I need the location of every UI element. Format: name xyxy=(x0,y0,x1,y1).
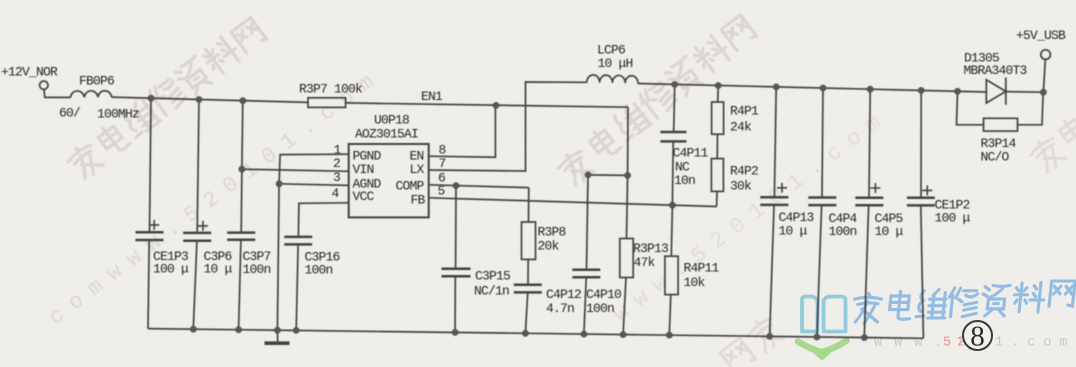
ferrite bead FB0P6 xyxy=(71,91,112,98)
svg-text:+5V_USB: +5V_USB xyxy=(1016,28,1066,43)
wire R3P8 to C4P12 xyxy=(525,259,528,333)
wire EN1 xyxy=(346,103,628,107)
watermark partial chars top-right corner xyxy=(1027,114,1076,176)
wire from +12V terminal to bead xyxy=(44,90,71,98)
junction EN1 / pin8 xyxy=(493,102,500,109)
wire VCC pin4 to C3P16 xyxy=(296,203,349,331)
diagonal watermark stripe A: 家电维修资料网 xyxy=(64,18,266,182)
svg-text:7: 7 xyxy=(439,156,446,171)
wire EN pin8 riser xyxy=(429,105,496,157)
svg-text:47k: 47k xyxy=(634,255,656,270)
svg-text:R4P2: R4P2 xyxy=(730,164,758,179)
wire input rail to R3P7 xyxy=(112,97,308,102)
svg-text:10 μH: 10 μH xyxy=(598,56,633,71)
junction output rail diode anode xyxy=(954,88,961,95)
wire COMP to R3P8 xyxy=(528,188,530,222)
resistor R4P11 body xyxy=(665,256,678,294)
wire VIN pin2 xyxy=(242,169,349,171)
svg-text:C4P10: C4P10 xyxy=(586,287,621,302)
resistor R3P14 body xyxy=(984,118,1018,131)
svg-text:R3P7 100k: R3P7 100k xyxy=(299,82,363,97)
junction bottom rail C3P15 xyxy=(452,329,459,336)
wire PGND pin1 xyxy=(277,154,348,330)
junction +5V node xyxy=(1040,89,1047,96)
svg-text:C4P12: C4P12 xyxy=(546,287,581,302)
capacitor C4P5 plates xyxy=(855,198,883,206)
wire COMP pin6 xyxy=(429,185,529,188)
svg-text:EN1: EN1 xyxy=(421,89,443,104)
wire C3P6 column xyxy=(193,100,199,330)
wire CE1P2 column xyxy=(921,90,924,338)
resistor R3P13 body xyxy=(620,239,633,278)
svg-text:U0P18: U0P18 xyxy=(374,113,409,128)
watermark partial chars bottom-centre xyxy=(720,314,786,367)
resistor R4P2 body xyxy=(711,159,723,192)
wire C4P13 column xyxy=(770,87,777,337)
wire +5V riser xyxy=(1043,60,1045,93)
junction bottom rail C3P6 xyxy=(190,326,197,333)
junction input rail 3 / VIN column xyxy=(239,97,246,104)
resistor R3P8 body xyxy=(522,222,536,259)
svg-text:C3P15: C3P15 xyxy=(475,269,510,284)
svg-text:100n: 100n xyxy=(243,262,271,277)
wire ground stub xyxy=(276,330,278,342)
wire R4P11 branch xyxy=(669,205,672,335)
junction output rail CE1P2 xyxy=(918,87,925,94)
diode D1305 xyxy=(986,78,1006,105)
svg-text:10k: 10k xyxy=(684,275,706,290)
junction bottom rail C4P5 xyxy=(861,334,868,341)
junction bottom rail C4P12 xyxy=(522,330,529,337)
logo book icon xyxy=(802,297,846,332)
svg-text:MBRA340T3: MBRA340T3 xyxy=(964,63,1027,78)
junction C4P10 top xyxy=(585,172,592,179)
capacitor C4P13 plates xyxy=(760,197,788,205)
svg-text:10n: 10n xyxy=(674,173,695,188)
svg-text:VCC: VCC xyxy=(353,189,375,204)
junction output rail C4P11 xyxy=(671,81,678,88)
svg-text:5: 5 xyxy=(438,184,445,199)
svg-text:60/: 60/ xyxy=(59,106,81,121)
wire FB pin5 xyxy=(429,198,717,207)
junction bottom rail PGND xyxy=(274,327,281,334)
resistor R3P7 body xyxy=(308,98,346,108)
svg-text:R4P11: R4P11 xyxy=(684,261,720,276)
ground bar xyxy=(265,341,290,345)
plus sign C3P6 xyxy=(198,221,208,231)
junction input rail 1 xyxy=(148,95,155,102)
capacitor C3P16 plates xyxy=(284,237,312,245)
svg-text:AOZ3015AI: AOZ3015AI xyxy=(355,127,418,142)
svg-text:10 μ: 10 μ xyxy=(875,224,904,239)
svg-text:24k: 24k xyxy=(730,120,752,135)
wire bottom ground rail xyxy=(148,329,923,339)
capacitor C3P6 plates xyxy=(183,233,211,241)
svg-text:+12V_NOR: +12V_NOR xyxy=(1,65,58,80)
terminal +5V_USB xyxy=(1041,50,1051,60)
junction bottom rail C4P4 xyxy=(814,334,821,341)
diagonal watermark stripe B: 家电维修资料网 xyxy=(555,15,756,188)
wire R4P1 top xyxy=(717,86,720,103)
junction soft-start node xyxy=(624,172,631,179)
junction AGND node xyxy=(276,180,283,187)
wire R3P14 loop xyxy=(957,91,1044,125)
svg-text:8: 8 xyxy=(970,321,985,353)
wire R4P1 to R4P2 xyxy=(716,134,718,158)
wire C4P5 column xyxy=(864,89,870,337)
capacitor C4P11 plates xyxy=(660,132,686,141)
junction output rail R4P1 xyxy=(715,82,722,89)
svg-text:1.com: 1.com xyxy=(995,336,1076,351)
capacitor C4P12 plates xyxy=(514,285,542,293)
svg-text:FB0P6: FB0P6 xyxy=(79,74,114,89)
svg-text:100n: 100n xyxy=(305,263,333,278)
svg-text:100n: 100n xyxy=(586,301,614,316)
resistor R4P1 body xyxy=(712,102,724,134)
svg-text:100MHz: 100MHz xyxy=(97,107,139,122)
plus sign C4P13 xyxy=(777,183,787,193)
wire diode cathode to +5V node xyxy=(1006,91,1044,94)
logo green swoosh xyxy=(798,341,847,353)
junction bottom rail C3P16 xyxy=(293,327,300,334)
capacitor CE1P2 plates xyxy=(907,198,935,206)
junction VIN node xyxy=(239,166,246,173)
svg-text:R4P1: R4P1 xyxy=(730,104,759,119)
svg-text:10 μ: 10 μ xyxy=(204,262,233,277)
svg-text:LX: LX xyxy=(410,162,425,177)
plus sign CE1P2 xyxy=(922,185,932,195)
logo circled 8 xyxy=(963,321,992,353)
wire AGND pin3 xyxy=(279,184,349,186)
junction input rail 2 xyxy=(196,96,203,103)
svg-text:2: 2 xyxy=(333,156,340,171)
junction COMP node xyxy=(453,182,460,189)
wire R4P2 to FB line xyxy=(716,191,718,206)
junction bottom rail C4P13 xyxy=(766,333,773,340)
wire C3P7 / VIN column xyxy=(239,101,243,330)
junction output rail C4P13 xyxy=(773,84,780,91)
plus sign CE1P3 xyxy=(149,220,159,230)
svg-text:VIN: VIN xyxy=(353,162,374,177)
wire output rail xyxy=(638,84,986,93)
junction FB node xyxy=(669,202,676,209)
capacitor C3P15 plates xyxy=(442,269,471,276)
svg-text:C4P11: C4P11 xyxy=(673,146,709,161)
svg-text:10 μ: 10 μ xyxy=(779,224,808,239)
svg-text:100 μ: 100 μ xyxy=(153,262,189,277)
junction bottom rail R3P13 xyxy=(620,331,627,338)
wire C3P15 branch xyxy=(454,186,457,333)
logo url www.520(8)01.com xyxy=(874,336,1076,351)
junction bottom rail C3P7 xyxy=(235,326,242,333)
svg-text:4: 4 xyxy=(332,186,340,201)
svg-text:3: 3 xyxy=(333,170,340,185)
svg-text:20k: 20k xyxy=(538,239,560,254)
junction bottom rail C4P10 xyxy=(581,331,588,338)
capacitor C4P4 plates xyxy=(808,198,836,206)
svg-text:4.7n: 4.7n xyxy=(546,301,574,316)
svg-text:R3P8: R3P8 xyxy=(538,225,566,240)
capacitor CE1P3 plates xyxy=(136,232,164,240)
inductor LCP6 xyxy=(587,75,638,84)
svg-text:100n: 100n xyxy=(829,224,857,239)
schematic layer xyxy=(40,50,1051,343)
svg-text:100 μ: 100 μ xyxy=(935,211,971,226)
junction bottom rail R4P11 xyxy=(666,332,673,339)
svg-text:NC/1n: NC/1n xyxy=(474,284,509,299)
svg-text:COMP: COMP xyxy=(396,179,425,194)
svg-text:NC/O: NC/O xyxy=(981,150,1010,165)
junction output rail C4P5 xyxy=(867,86,874,93)
capacitor C3P7 plates xyxy=(227,233,255,240)
svg-text:FB: FB xyxy=(411,193,426,208)
junction output rail C4P4 xyxy=(820,85,827,92)
svg-text:30k: 30k xyxy=(730,179,752,194)
wire C4P11 branch xyxy=(672,84,674,205)
plus sign C4P5 xyxy=(870,183,880,193)
wire CE1P3 column xyxy=(148,98,151,328)
wire C4P4 column xyxy=(817,88,823,337)
capacitor C4P10 plates xyxy=(572,270,600,278)
IC U0P18 box xyxy=(349,144,429,217)
wire EN1 tail riser to soft-start node xyxy=(627,107,629,175)
terminal +12V_NOR xyxy=(40,81,48,89)
wire node to C4P10 xyxy=(584,175,628,334)
wire LX pin7 riser xyxy=(429,82,587,171)
wire node to R3P13 xyxy=(623,175,628,334)
logo layer bottom right xyxy=(798,281,1076,358)
svg-text:R3P13: R3P13 xyxy=(633,241,668,256)
logo text 家电维修资料网 (teal script) xyxy=(852,281,1075,323)
